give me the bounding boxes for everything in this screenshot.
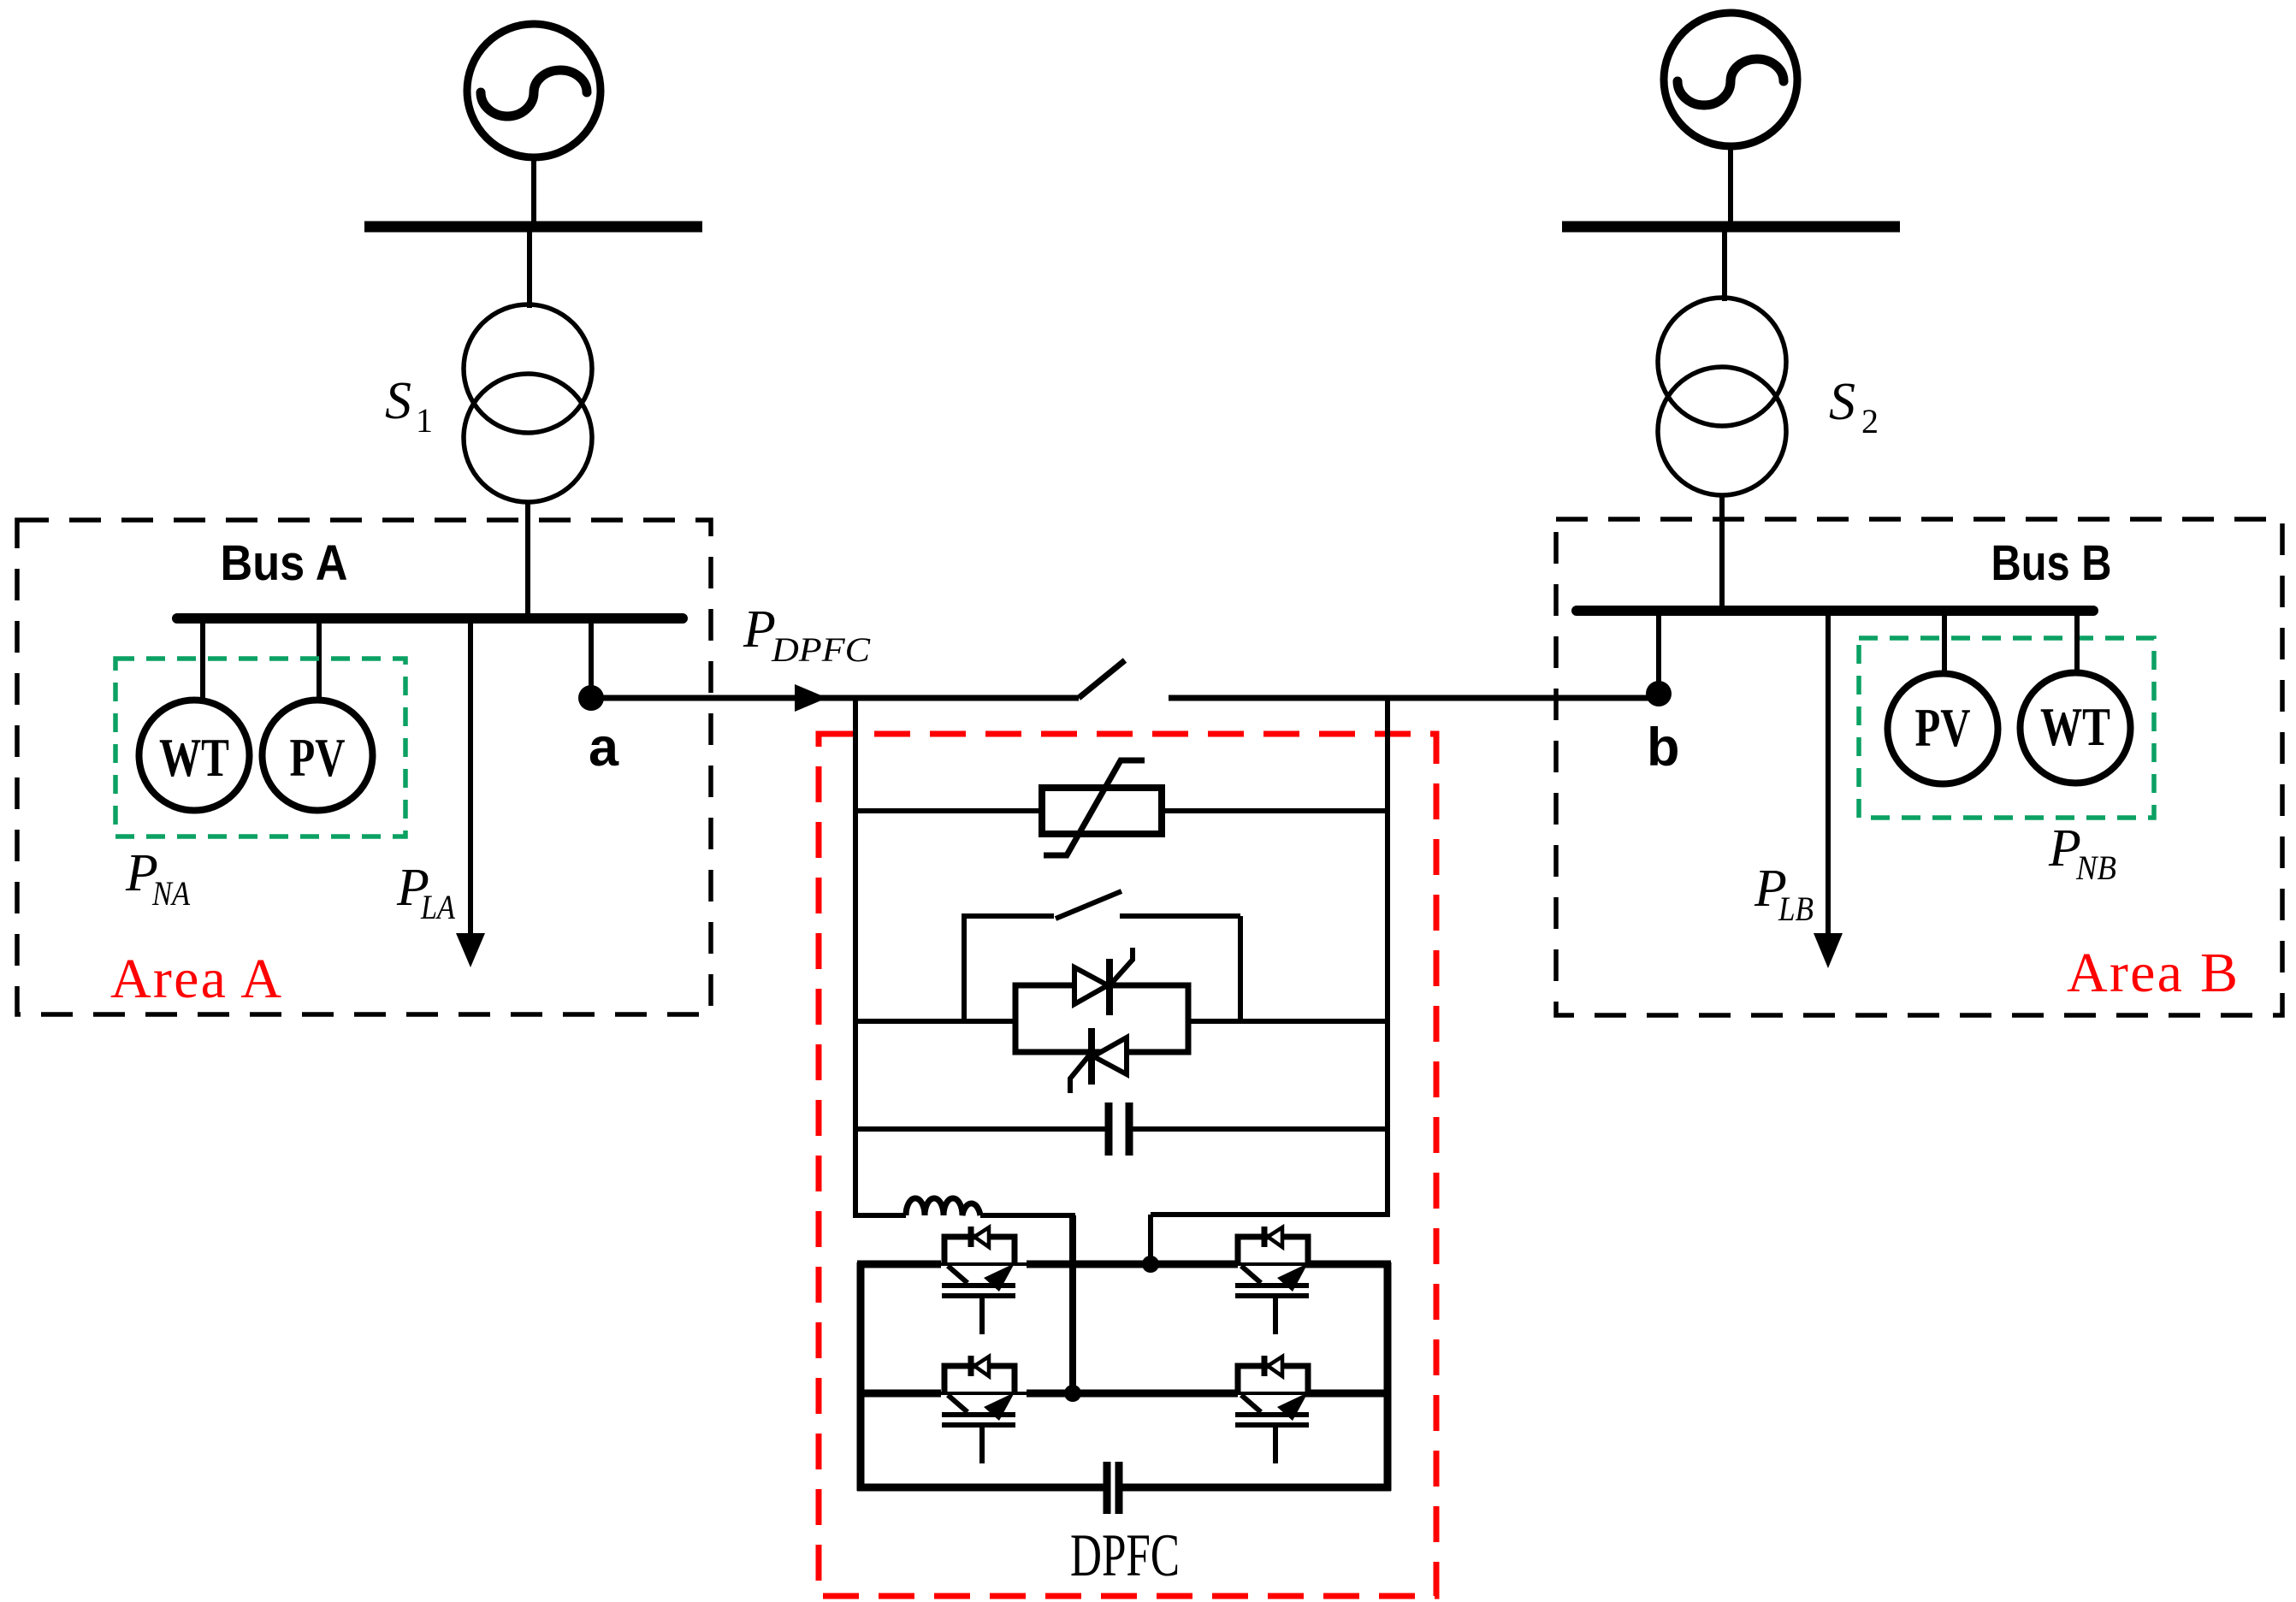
- wire bus B to node b: [1656, 616, 1661, 684]
- svg-text:S: S: [385, 372, 411, 430]
- photovoltaic PV (right): [1888, 674, 1998, 784]
- thyristor V2 (reverse): [1070, 1028, 1127, 1093]
- node a junction dot: [578, 685, 604, 711]
- DPFC right vertical wire: [1385, 698, 1390, 1217]
- svg-text:2: 2: [1861, 402, 1879, 440]
- wire transformer S2 to bus B: [1719, 495, 1725, 609]
- IGBT module Q3 with diode: [942, 1356, 1015, 1463]
- top bus bar (left): [364, 222, 702, 233]
- Area A dashed boundary: [17, 520, 711, 1014]
- bypass switch right wire: [1120, 913, 1240, 919]
- DC link capacitor plates: [1104, 1462, 1111, 1514]
- varistor MOV body: [1042, 788, 1162, 834]
- series capacitor branch left wire: [855, 1126, 1105, 1132]
- varistor branch wire: [855, 808, 1388, 813]
- wire top bus B to transformer S2: [1722, 232, 1727, 301]
- wire bus A to PV: [317, 624, 322, 701]
- load arrow A: [456, 933, 485, 967]
- left converter leg wire: [1069, 1215, 1076, 1393]
- right converter leg wire: [1148, 1215, 1153, 1264]
- node b junction dot: [1646, 681, 1672, 706]
- svg-text:LA: LA: [420, 888, 455, 926]
- thyristor branch left wire: [855, 1019, 1015, 1024]
- svg-text:b: b: [1647, 718, 1679, 777]
- thyristor V1 (forward): [1074, 948, 1133, 1015]
- generator source G2: [1664, 13, 1797, 146]
- smoothing inductor L: [906, 1198, 980, 1215]
- DPFC red dashed boundary: [819, 734, 1436, 1596]
- svg-text:PV: PV: [1915, 698, 1971, 758]
- IGBT module Q2 with diode: [1235, 1227, 1309, 1334]
- photovoltaic PV (left): [263, 701, 373, 811]
- varistor slash: [1044, 760, 1145, 855]
- power flow arrow P_DPFC: [795, 684, 827, 712]
- svg-text:LB: LB: [1778, 890, 1814, 928]
- bypass switch branch: left stub: [962, 913, 967, 1021]
- svg-text:S: S: [1829, 373, 1855, 431]
- H-bridge mid rail: [857, 1390, 1391, 1398]
- svg-text:a: a: [589, 718, 619, 777]
- H-bridge frame left: [857, 1262, 865, 1491]
- wire transformer S1 to bus A: [525, 502, 530, 616]
- svg-text:NA: NA: [151, 874, 190, 913]
- wire line switch to node b: [1169, 695, 1659, 701]
- thyristor branch right wire: [1188, 1019, 1388, 1024]
- green dashed box P_NA group: [115, 659, 405, 836]
- wire G1 to top bus A: [531, 157, 536, 222]
- svg-text:Bus A: Bus A: [221, 535, 348, 591]
- svg-text:NB: NB: [2075, 848, 2116, 887]
- wire bus A to node a: [589, 624, 594, 689]
- converter inlet wire (left bottom corner): [853, 1213, 906, 1218]
- load feeder A wire: [468, 624, 473, 934]
- H-bridge bottom rail: [857, 1484, 1104, 1492]
- line switch blade: [1079, 660, 1125, 698]
- generator source G1: [467, 24, 601, 157]
- svg-text:WT: WT: [2040, 697, 2110, 757]
- IGBT module Q4 with diode: [1235, 1356, 1309, 1463]
- wire G2 to top bus B: [1728, 146, 1733, 222]
- wire node a to line switch: [591, 695, 1079, 701]
- svg-text:PV: PV: [290, 728, 346, 788]
- bypass switch left wire: [964, 913, 1054, 919]
- wire inductor to left converter leg: [980, 1213, 1075, 1218]
- wind turbine WT (left): [139, 701, 250, 811]
- svg-text:WT: WT: [159, 728, 229, 788]
- DPFC left vertical wire: [853, 698, 858, 1218]
- IGBT module Q1 with diode: [942, 1227, 1015, 1334]
- svg-text:Bus B: Bus B: [1991, 535, 2112, 591]
- series capacitor plates: [1105, 1102, 1113, 1156]
- green dashed box P_NB group: [1859, 638, 2154, 818]
- wire bus A to WT: [200, 624, 205, 701]
- junction dot on top rail: [1142, 1256, 1159, 1273]
- wind turbine WT (right): [2021, 673, 2131, 783]
- wire bus B to WT (right): [2074, 616, 2080, 674]
- junction dot on mid rail: [1064, 1385, 1081, 1402]
- svg-text:DPFC: DPFC: [771, 630, 872, 669]
- svg-text:Area A: Area A: [110, 948, 281, 1010]
- wire top bus A to transformer S1: [527, 232, 532, 308]
- load feeder B wire: [1826, 616, 1831, 935]
- bypass switch right stub: [1238, 916, 1243, 1021]
- svg-text:Area B: Area B: [2067, 942, 2238, 1004]
- transformer S2: [1658, 298, 1786, 495]
- Area B dashed boundary: [1556, 519, 2282, 1015]
- thyristor pair box: [1015, 985, 1188, 1052]
- top bus bar (right): [1562, 222, 1900, 233]
- bus bar B: [1577, 606, 2093, 616]
- H-bridge top rail: [857, 1261, 1391, 1268]
- right return wire: [1151, 1212, 1390, 1217]
- H-bridge frame right: [1384, 1262, 1392, 1491]
- wire bus B to PV (right): [1942, 616, 1947, 676]
- bypass switch blade: [1056, 891, 1121, 919]
- transformer S1: [464, 304, 592, 502]
- load arrow B: [1814, 933, 1843, 968]
- svg-text:1: 1: [416, 401, 433, 440]
- bus bar A: [177, 613, 683, 624]
- svg-text:DPFC: DPFC: [1070, 1522, 1180, 1589]
- series capacitor branch right wire: [1133, 1126, 1388, 1132]
